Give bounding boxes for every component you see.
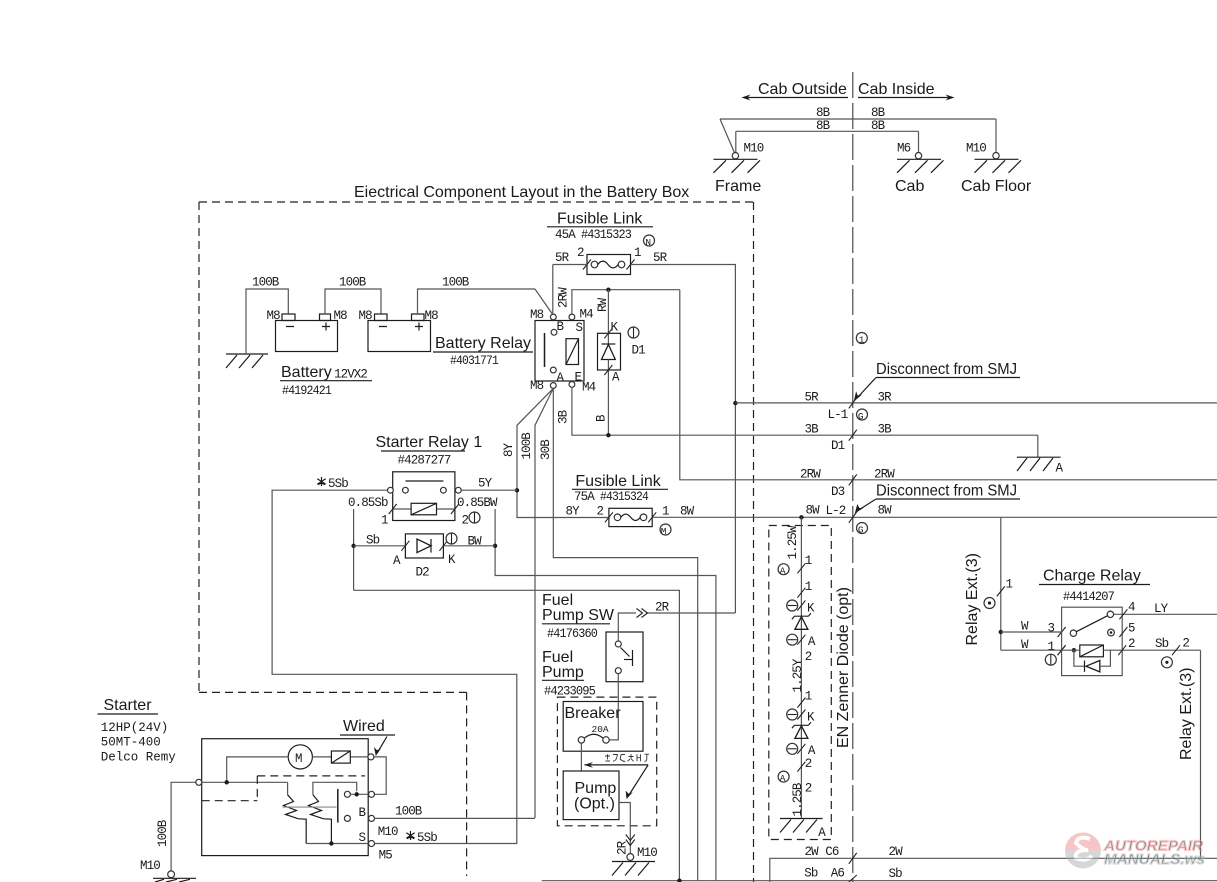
svg-text:20A: 20A [592, 724, 609, 735]
connector A pin1 upper [778, 554, 812, 577]
svg-text:M10: M10 [378, 825, 398, 839]
starter S terminal row [306, 831, 392, 863]
charge relay coil [1058, 645, 1123, 657]
label 3B left right D1 [805, 423, 893, 454]
svg-text:EN Zenner Diode (opt): EN Zenner Diode (opt) [835, 587, 852, 748]
svg-text:2W: 2W [805, 845, 820, 859]
wire fan 30B from M8 [539, 388, 698, 880]
connector A pin2 lower [778, 771, 789, 784]
svg-text:2RW: 2RW [800, 468, 821, 482]
svg-text:Pump: Pump [542, 664, 584, 681]
svg-text:L-1: L-1 [828, 408, 848, 422]
label Disconnect from SMJ lower [855, 483, 1020, 514]
wire 8W row L-2 [652, 504, 1217, 523]
ground Cab M6 [895, 142, 944, 196]
svg-text:2: 2 [805, 782, 812, 796]
svg-text:1: 1 [381, 514, 388, 528]
ground zener A [780, 819, 826, 841]
starter coil 1 [284, 795, 307, 844]
svg-text:LY: LY [1154, 602, 1169, 616]
label 2 third [805, 782, 812, 796]
svg-text:Battery Relay: Battery Relay [435, 335, 531, 352]
connector pin1 lower [797, 580, 811, 598]
circled Q below pin1 [1045, 654, 1056, 665]
svg-text:Eiectrical Component Layout in: Eiectrical Component Layout in the Batte… [354, 184, 689, 201]
breaker pump dashed box [557, 697, 656, 826]
svg-text:3R: 3R [878, 391, 893, 405]
label *5Sb [317, 477, 348, 491]
svg-text:Relay Ext.(3): Relay Ext.(3) [1178, 668, 1195, 760]
svg-text:4: 4 [1128, 601, 1135, 615]
svg-text:#4192421: #4192421 [282, 384, 331, 398]
charge relay pin2 Sb [1118, 637, 1200, 656]
label Relay Ext.(3) right [1178, 668, 1195, 760]
fusible link FL2 75A [605, 508, 656, 526]
wire 100B battery1 neg to ground [246, 276, 288, 355]
svg-text:Cab Outside: Cab Outside [758, 81, 847, 98]
svg-text:8Y: 8Y [502, 442, 516, 457]
starter relay coil [389, 503, 459, 515]
svg-text:2: 2 [597, 505, 604, 519]
starter M1 box [202, 739, 369, 856]
wire W pin3 [1001, 620, 1066, 638]
circled 1 on centerline [856, 333, 867, 346]
svg-text:M: M [661, 526, 667, 537]
svg-text:8B: 8B [816, 119, 831, 133]
EN Zenner Diode dashed box [769, 526, 832, 840]
svg-text:2: 2 [577, 246, 584, 260]
label 8B x4 [816, 106, 886, 133]
svg-text:8B: 8B [816, 106, 831, 120]
circled D1 connector symbol [628, 327, 639, 338]
ground battery negative [226, 354, 268, 368]
zener D5 A terminal [787, 743, 816, 758]
ground Frame M10 [714, 142, 764, 196]
label Battery 12VX2 #4192421 [280, 364, 372, 398]
svg-text:Charge Relay: Charge Relay [1043, 568, 1141, 585]
battery box dashed frame [199, 202, 754, 882]
wire 5Y to 8Y node [461, 477, 517, 491]
svg-text:2: 2 [1128, 637, 1135, 651]
labels 8Y 2 1 8W [566, 505, 695, 519]
fuel pump switch S1 [606, 632, 643, 682]
svg-text:1: 1 [805, 580, 812, 594]
ground starter M10 [140, 859, 196, 882]
svg-text:A: A [780, 773, 786, 784]
svg-text:100B: 100B [252, 276, 280, 290]
svg-text:S: S [359, 831, 366, 845]
connector pin1 third [797, 690, 811, 708]
starter internal dashed link [202, 776, 365, 801]
battery B1 [267, 309, 348, 352]
svg-text:#4233095: #4233095 [544, 685, 595, 699]
zener diode D5 [792, 722, 811, 738]
svg-text:G: G [858, 411, 864, 422]
svg-text:(Opt.): (Opt.) [574, 796, 615, 813]
label Disconnect from SMJ upper [854, 361, 1020, 402]
svg-text:1: 1 [859, 334, 865, 345]
label B vertical [595, 414, 609, 422]
starter coil 2 [309, 795, 332, 844]
wire fuse45 right down to 5R node [631, 265, 736, 614]
svg-text:1: 1 [805, 690, 812, 704]
charge relay pin5 [1108, 622, 1135, 638]
svg-text:M: M [295, 752, 303, 766]
battery relay pin E M4 bottom [569, 371, 596, 395]
label Fusible Link 75A #4315324 [572, 473, 668, 504]
svg-text:5R: 5R [653, 251, 668, 265]
svg-text:Breaker: Breaker [565, 705, 622, 722]
wire Sb row A6 [542, 867, 1217, 882]
svg-text:2: 2 [462, 514, 469, 528]
svg-text:MANUALS.ws: MANUALS.ws [1104, 851, 1205, 868]
svg-text:Starter: Starter [104, 697, 153, 714]
pump P1 box [563, 771, 619, 820]
svg-text:Battery: Battery [281, 364, 332, 381]
svg-text:Cab Floor: Cab Floor [961, 178, 1032, 195]
charge relay pin4 LY [1114, 601, 1217, 620]
battery B2 [359, 309, 439, 352]
svg-text:Pump SW: Pump SW [542, 607, 615, 624]
wire 5Sb loop to starter S [272, 490, 517, 843]
wire 5R-3R row L-1 [733, 391, 1217, 423]
svg-text:3B: 3B [805, 423, 820, 437]
svg-text:C6: C6 [825, 845, 839, 859]
svg-text:Relay Ext.(3): Relay Ext.(3) [964, 553, 981, 645]
svg-text:Cab: Cab [895, 178, 924, 195]
label 1.25B [791, 782, 805, 816]
wire 2RW fuse45 to relay B [553, 265, 571, 315]
wire 8B lower [736, 131, 919, 152]
svg-text:M4: M4 [582, 381, 596, 395]
svg-text:100B: 100B [520, 432, 534, 460]
svg-text:M10: M10 [140, 859, 160, 873]
svg-text:5R: 5R [555, 251, 570, 265]
circled 1 above D2 K [446, 533, 457, 544]
starter contact plate [337, 789, 339, 823]
svg-text:5Sb: 5Sb [328, 477, 348, 491]
zener D5 K terminal [787, 709, 815, 725]
watermark text [1103, 838, 1205, 869]
svg-text:M10: M10 [637, 846, 657, 860]
fusible link FL1 45A [583, 255, 635, 275]
wire fuel pump sw to breaker [609, 674, 618, 740]
wire 8B upper [720, 119, 996, 153]
watermark logo [1065, 833, 1101, 869]
starter B terminal [344, 806, 374, 821]
label Starter 12HP(24V) 50MT-400 Delco Remy [98, 697, 177, 765]
battery relay pin S M4 top [569, 308, 593, 336]
zener D4 A terminal [787, 634, 816, 649]
svg-text:1.25Y: 1.25Y [791, 658, 805, 692]
circled G at L-1 [857, 409, 868, 422]
svg-text:1: 1 [634, 246, 641, 260]
svg-text:BW: BW [468, 535, 483, 549]
svg-text:M5: M5 [379, 849, 393, 863]
svg-text:3B: 3B [878, 423, 893, 437]
diode D1 [598, 290, 646, 436]
arrow cab outside [742, 95, 849, 101]
svg-text:2: 2 [805, 757, 812, 771]
svg-text:3: 3 [1048, 622, 1055, 636]
label 1.25W [786, 525, 800, 559]
svg-text:75A: 75A [574, 490, 595, 504]
svg-text:#4031771: #4031771 [450, 354, 498, 368]
zener diode D4 [792, 613, 811, 629]
svg-text:50MT-400: 50MT-400 [101, 736, 161, 750]
svg-text:Fusible Link: Fusible Link [575, 473, 661, 490]
svg-text:Pump: Pump [575, 780, 617, 797]
wire 100B starter to ground [156, 782, 196, 871]
circled dot connector left [984, 598, 995, 609]
svg-text:Fusible Link: Fusible Link [557, 211, 643, 228]
diode D2 [354, 534, 496, 580]
charge relay K2 box [1062, 607, 1123, 675]
svg-text:Sb: Sb [366, 534, 380, 548]
label EN Zenner Diode (opt) [835, 587, 852, 748]
wire fan 8Y from M8 [502, 388, 609, 517]
circled N [644, 235, 655, 248]
label Starter Relay 1 #4287277 [376, 434, 483, 468]
svg-text:8W: 8W [680, 505, 695, 519]
labels 0.85Sb 0.85BW 1 2 [348, 496, 498, 528]
label Charge Relay #4414207 [1039, 568, 1150, 605]
svg-text:5R: 5R [805, 391, 820, 405]
svg-text:M8: M8 [530, 379, 544, 393]
svg-text:M4: M4 [580, 308, 594, 322]
svg-text:Disconnect from SMJ: Disconnect from SMJ [876, 483, 1017, 500]
svg-text:Cab Inside: Cab Inside [858, 81, 935, 98]
svg-text:2W: 2W [889, 845, 904, 859]
svg-text:100B: 100B [156, 819, 170, 847]
starter main contact row [196, 779, 368, 797]
battery relay U1 box [535, 321, 584, 382]
svg-text:M6: M6 [897, 142, 911, 156]
svg-text:12HP(24V): 12HP(24V) [101, 721, 169, 735]
wire 2W row C6 [770, 845, 1217, 882]
circled M [660, 524, 671, 537]
svg-text:Wired: Wired [343, 718, 385, 735]
starter relay pins [388, 487, 462, 493]
charge relay diode [1074, 650, 1111, 672]
svg-text:D2: D2 [416, 566, 430, 580]
label Cab Inside [858, 81, 935, 98]
svg-text:8W: 8W [878, 504, 893, 518]
svg-text:A6: A6 [831, 867, 845, 881]
wire 3B row from E [557, 387, 1038, 437]
svg-text:M8: M8 [267, 309, 281, 323]
svg-text:1: 1 [1006, 578, 1013, 592]
circled 1 right of coil [469, 512, 480, 523]
svg-text:100B: 100B [442, 276, 470, 290]
breaker CB1 box [563, 702, 643, 752]
svg-text:Delco Remy: Delco Remy [101, 751, 177, 765]
battery relay contact bar [544, 333, 546, 367]
battery relay coil [566, 339, 579, 365]
svg-text:Sb: Sb [889, 867, 903, 881]
svg-text:E: E [575, 371, 582, 385]
svg-text:Frame: Frame [715, 178, 761, 195]
svg-text:M10: M10 [966, 142, 986, 156]
label Fusible Link 45A #4315323 [547, 211, 653, 243]
wire 2R to 5R node [618, 601, 735, 642]
svg-text:1.25B: 1.25B [791, 782, 805, 816]
wire relay bottom to A6 row [354, 590, 680, 880]
svg-text:2: 2 [805, 650, 812, 664]
label *5Sb at starter [406, 831, 437, 845]
charge relay switch [1070, 611, 1113, 636]
ground pump M10 [612, 846, 657, 876]
svg-text:#4414207: #4414207 [1063, 590, 1114, 604]
wire 100B battery1 to battery2 [325, 276, 381, 315]
svg-text:2: 2 [1182, 637, 1189, 651]
wire W pin1 [1001, 638, 1066, 655]
ground A right of 3B [1017, 435, 1064, 475]
label 2 [805, 650, 812, 664]
svg-text:5Y: 5Y [478, 477, 493, 491]
svg-text:Starter Relay 1: Starter Relay 1 [376, 434, 483, 451]
svg-text:N: N [645, 237, 651, 248]
svg-text:5: 5 [1128, 622, 1135, 636]
svg-text:5Sb: 5Sb [417, 831, 437, 845]
wire 100B starter B [375, 805, 535, 840]
svg-text:#4176360: #4176360 [547, 627, 597, 641]
svg-text:45A: 45A [555, 228, 576, 242]
svg-text:M8: M8 [334, 309, 348, 323]
svg-text:#4315323: #4315323 [581, 228, 631, 242]
label Fuel Pump #4233095 [542, 649, 595, 699]
svg-text:1.25W: 1.25W [786, 525, 800, 559]
arrow cab inside [858, 95, 955, 101]
svg-text:30B: 30B [539, 439, 553, 460]
wire pump to ground M10 [616, 803, 635, 856]
starter resistor [331, 751, 350, 763]
wire coil right vertical BW [493, 509, 716, 880]
label Relay Ext.(3) left [964, 553, 981, 645]
centerline Cab Outside/Inside boundary [852, 72, 854, 882]
label Cab Outside [758, 81, 847, 98]
svg-text:100B: 100B [339, 276, 367, 290]
svg-text:0.85Sb: 0.85Sb [348, 496, 388, 510]
svg-text:M8: M8 [530, 308, 544, 322]
svg-text:A: A [780, 566, 786, 577]
svg-text:L-2: L-2 [826, 504, 846, 518]
starter motor wires [227, 757, 369, 782]
title Electrical Component Layout in the Battery Box [354, 184, 689, 201]
svg-text:M8: M8 [425, 309, 439, 323]
label Battery Relay #4031771 [433, 335, 533, 368]
starter coil crossbar grey [283, 806, 337, 808]
svg-text:Sb: Sb [1155, 637, 1169, 651]
svg-text:100B: 100B [395, 805, 423, 819]
svg-text:2R: 2R [616, 840, 630, 855]
svg-text:G: G [858, 524, 864, 535]
wire Sb down right side [1200, 650, 1202, 858]
wire RW node row [572, 288, 680, 315]
wire breaker to pump [580, 743, 582, 771]
note pump included (japanese) [584, 754, 649, 799]
starter motor M [288, 745, 312, 769]
svg-text:1: 1 [1048, 640, 1055, 654]
svg-text:#4287277: #4287277 [398, 454, 451, 468]
wire 100B battery2 to battery relay M8 [418, 276, 553, 315]
svg-text:0.85BW: 0.85BW [457, 496, 498, 510]
svg-text:Sb: Sb [804, 867, 818, 881]
svg-text:S: S [576, 321, 583, 335]
svg-text:8B: 8B [871, 119, 886, 133]
svg-text:1: 1 [805, 554, 812, 568]
svg-text:M10: M10 [744, 142, 764, 156]
label Fuel Pump SW #4176360 [542, 592, 615, 641]
wire 2RW row D3 [680, 290, 1217, 499]
wire fuse45 left [553, 264, 587, 266]
battery relay pin A M8 bottom [530, 367, 565, 393]
label 1.25Y [791, 658, 805, 692]
svg-text:8Y: 8Y [566, 505, 581, 519]
svg-text:3B: 3B [557, 409, 571, 424]
svg-text:D1: D1 [831, 439, 845, 453]
svg-text:Disconnect from SMJ: Disconnect from SMJ [876, 361, 1017, 378]
svg-text:D3: D3 [831, 485, 845, 499]
svg-text:8W: 8W [806, 504, 821, 518]
svg-text:8B: 8B [871, 106, 886, 120]
zener string wire [800, 517, 802, 818]
zener D4 K terminal [787, 600, 815, 616]
label Wired with arrow [340, 718, 395, 756]
svg-text:D1: D1 [632, 344, 646, 358]
svg-text:2RW: 2RW [874, 468, 895, 482]
svg-text:12VX2: 12VX2 [334, 368, 367, 382]
starter relay K1 box [393, 472, 455, 521]
label 2 second [797, 757, 811, 772]
svg-text:2RW: 2RW [557, 287, 571, 308]
wire coil left vertical [351, 509, 355, 590]
wire fan 100B from M8 [520, 388, 553, 818]
svg-text:2R: 2R [655, 601, 670, 615]
labels 5R 2 1 5R [555, 246, 668, 265]
battery relay pin B M8 top [530, 308, 565, 335]
svg-text:#4315324: #4315324 [600, 490, 648, 504]
svg-text:1: 1 [662, 505, 669, 519]
circled G at L-2 [857, 523, 868, 536]
svg-text:M8: M8 [359, 309, 373, 323]
starter terminal wired loop [368, 754, 386, 797]
ground Cab Floor M10 [961, 142, 1032, 196]
wire 8W down to charge relay W [997, 517, 1013, 650]
circled dot connector right [1161, 657, 1172, 668]
